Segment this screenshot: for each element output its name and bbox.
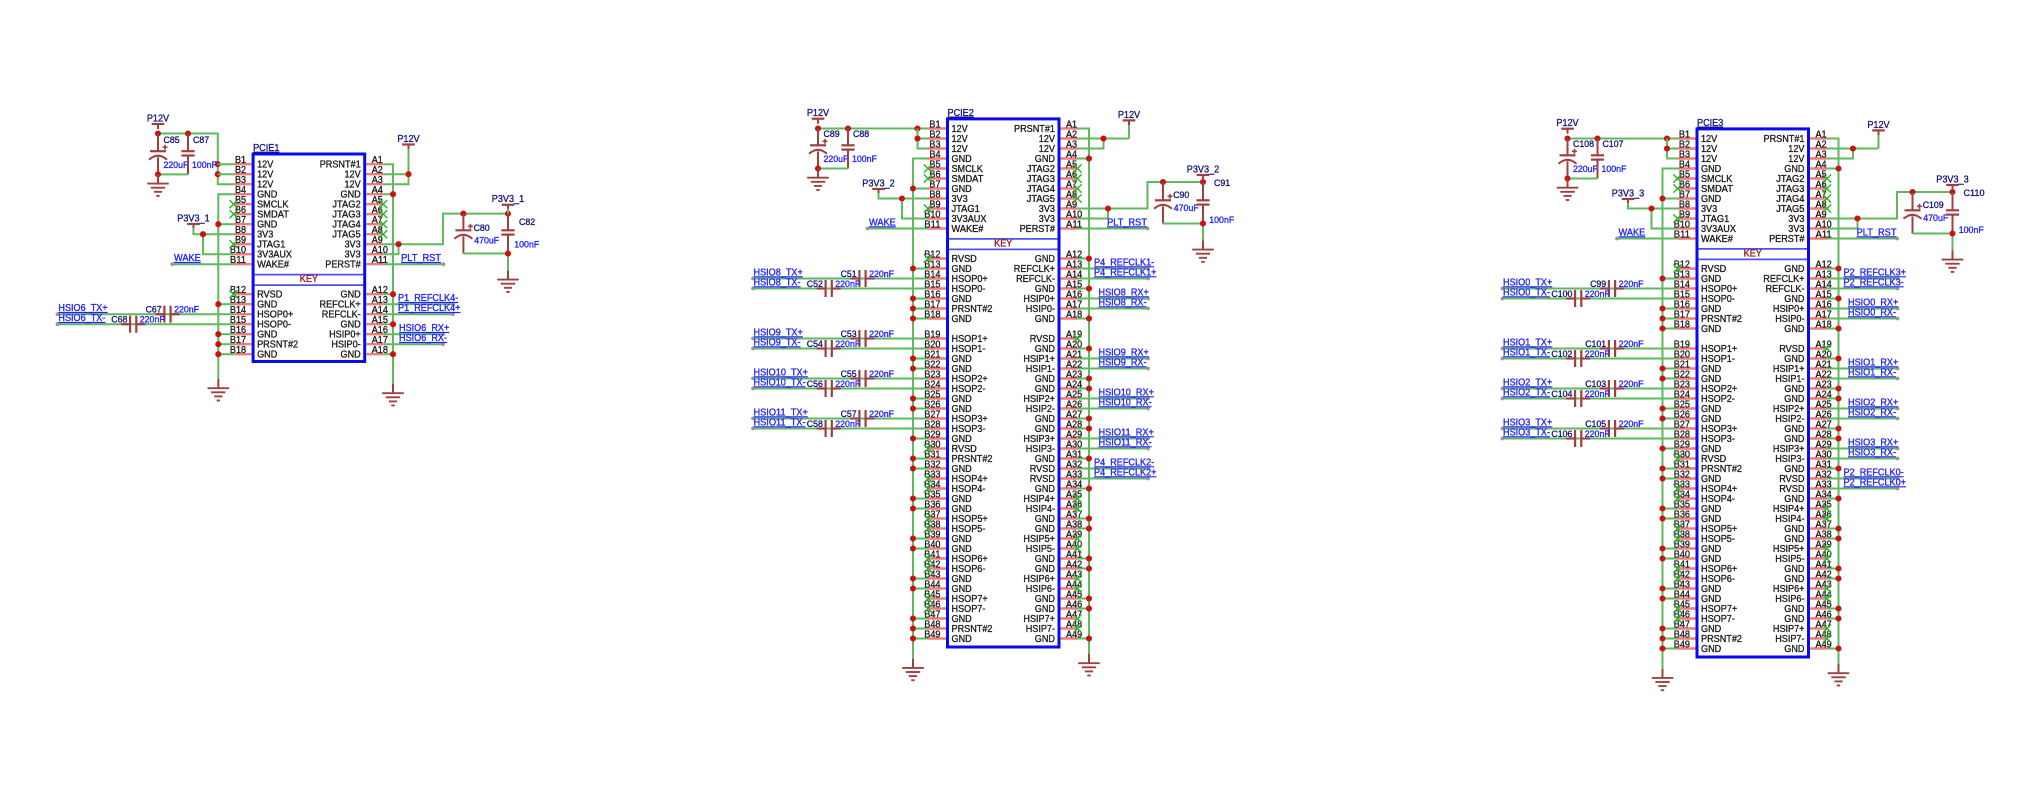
wire GND bus right: [383, 164, 396, 384]
net label WAKE: [869, 218, 896, 229]
pin B10 (3V3AUX) of PCIE3: [1674, 219, 1736, 235]
pin A34 (GND) of PCIE3: [1784, 489, 1832, 505]
pin A15 (GND) of PCIE2: [1035, 279, 1083, 295]
no-connect X: [924, 514, 932, 522]
wire HSIO3_TX-: [1501, 437, 1678, 441]
net label HSIO6_RX+: [399, 323, 449, 334]
net label HSIO10_RX-: [1099, 398, 1152, 409]
net label HSIO9_RX-: [1099, 358, 1147, 369]
wire 3V3 A9/A10 to P3V3_2: [1078, 179, 1207, 219]
pin B14 (HSOP0+) of PCIE2: [924, 269, 987, 285]
no-connect X: [1673, 264, 1681, 272]
wire HSIO10_RX+: [1078, 397, 1150, 401]
pin A33 (RVSD) of PCIE3: [1779, 479, 1832, 495]
net label HSIO0_TX+: [1503, 278, 1552, 289]
net label HSIO9_TX+: [754, 328, 803, 339]
pin A14 (REFCLK-) of PCIE3: [1766, 279, 1832, 295]
net label P2_REFCLK0-: [1844, 468, 1904, 479]
pin B10 (3V3AUX) of PCIE1: [230, 245, 292, 261]
pin A10 (3V3) of PCIE1: [345, 245, 389, 261]
pin B37 (HSOP5+) of PCIE2: [924, 509, 987, 525]
svg-text:C87: C87: [193, 134, 209, 145]
wire P4_REFCLK1-: [1078, 267, 1150, 271]
wire P12V to 12V bus: [155, 130, 234, 184]
pin B41 (HSOP6+) of PCIE3: [1674, 559, 1737, 575]
svg-text:P12V: P12V: [807, 108, 829, 119]
wire 12V bus to B2/B3: [914, 129, 928, 149]
svg-text:P3V3_1: P3V3_1: [492, 194, 525, 205]
capacitor C82 (100nF): [501, 214, 539, 254]
pin A25 (HSIP2+) of PCIE3: [1773, 399, 1832, 415]
no-connect X: [1673, 484, 1681, 492]
svg-text:C88: C88: [853, 128, 869, 139]
pin B9 (JTAG1) of PCIE3: [1678, 209, 1730, 225]
no-connect X: [924, 174, 932, 182]
no-connect X: [924, 484, 932, 492]
pin B5 (SMCLK) of PCIE3: [1678, 169, 1733, 185]
pin A4 (GND) of PCIE1: [341, 185, 384, 201]
net label P2_REFCLK0+: [1844, 478, 1907, 489]
wire C80-C82 bottom to ground: [463, 250, 511, 270]
wire P12V to A2/A3: [383, 149, 411, 184]
net label PLT_RST: [1107, 218, 1148, 229]
capacitor C87 (100nF): [181, 134, 217, 175]
pin B13 (GND) of PCIE1: [230, 295, 277, 311]
wire HSIO8_RX-: [1078, 307, 1150, 311]
pin A46 (GND) of PCIE2: [1035, 599, 1083, 615]
pin A48 (HSIP7-) of PCIE3: [1775, 629, 1832, 645]
pin B3 (12V) of PCIE2: [928, 139, 968, 155]
pin A27 (GND) of PCIE2: [1035, 409, 1083, 425]
svg-text:P3V3_3: P3V3_3: [1612, 188, 1645, 199]
net label HSIO2_RX-: [1848, 408, 1896, 419]
no-connect X: [1823, 514, 1831, 522]
capacitor C102 (220nF): [1551, 348, 1610, 367]
svg-text:GND: GND: [1701, 644, 1721, 655]
wire cap bottom: [1564, 175, 1597, 181]
designator PCIE3: [1697, 118, 1723, 129]
pin A1 (PRSNT#1) of PCIE3: [1764, 129, 1828, 145]
pin A16 (HSIP0+) of PCIE1: [329, 325, 388, 341]
wire WAKE: [866, 227, 928, 231]
svg-text:PERST#: PERST#: [1020, 224, 1056, 235]
pin A12 (GND) of PCIE3: [1784, 259, 1832, 275]
no-connect X: [1823, 544, 1831, 552]
pin A31 (GND) of PCIE2: [1035, 449, 1083, 465]
no-connect X: [1673, 494, 1681, 502]
wire cap bottom: [815, 165, 848, 171]
wire 12V bus to pin B2: [218, 173, 234, 175]
pin B17 (PRSNT#2) of PCIE2: [924, 299, 992, 315]
pin A37 (GND) of PCIE3: [1784, 519, 1832, 535]
wire HSIO9_RX+: [1078, 357, 1150, 361]
pin B49 (GND) of PCIE2: [924, 629, 971, 645]
no-connect X: [1073, 184, 1081, 192]
svg-text:GND: GND: [1784, 644, 1804, 655]
wire 12V bus to pin B1: [218, 163, 234, 165]
pin B9 (JTAG1) of PCIE2: [928, 199, 980, 215]
svg-text:GND: GND: [257, 350, 277, 361]
svg-text:C107: C107: [1603, 138, 1624, 149]
pin B15 (HSOP0-) of PCIE2: [924, 279, 985, 295]
pin A12 (GND) of PCIE2: [1035, 249, 1083, 265]
pin B48 (PRSNT#2) of PCIE2: [924, 619, 992, 635]
pin A14 (REFCLK-) of PCIE2: [1016, 269, 1082, 285]
pin B42 (HSOP6-) of PCIE2: [924, 559, 985, 575]
pin B38 (HSOP5-) of PCIE3: [1674, 529, 1735, 545]
wire HSIO6_TX+: [56, 312, 234, 316]
pin A10 (3V3) of PCIE2: [1039, 209, 1083, 225]
svg-text:220nF: 220nF: [1585, 348, 1610, 359]
pin B11 (WAKE#) of PCIE1: [230, 255, 289, 271]
capacitor C90 (470uF): [1154, 182, 1199, 224]
pin A25 (HSIP2+) of PCIE2: [1023, 389, 1082, 405]
pin B7 (GND) of PCIE3: [1678, 189, 1722, 205]
wire P2_REFCLK3-: [1827, 287, 1899, 291]
pin A6 (JTAG3) of PCIE1: [332, 205, 383, 221]
pin B1 (12V) of PCIE3: [1678, 129, 1718, 145]
pin B6 (SMDAT) of PCIE2: [928, 169, 984, 185]
pin B3 (12V) of PCIE1: [234, 175, 274, 191]
pin B12 (RVSD) of PCIE3: [1674, 259, 1727, 275]
svg-text:C80: C80: [474, 222, 490, 233]
capacitor C53 (220nF): [841, 328, 895, 347]
net label P2_REFCLK3-: [1844, 278, 1904, 289]
net label HSIO10_RX+: [1099, 388, 1154, 399]
wire P4_REFCLK2+: [1078, 477, 1150, 481]
net label HSIO11_RX-: [1099, 438, 1152, 449]
no-connect X: [1073, 534, 1081, 542]
pin A40 (HSIP5-) of PCIE3: [1775, 549, 1832, 565]
svg-text:P3V3_3: P3V3_3: [1936, 174, 1969, 185]
capacitor C80 (470uF): [454, 214, 499, 254]
pin A5 (JTAG2) of PCIE1: [332, 195, 383, 211]
no-connect X: [1073, 584, 1081, 592]
pin A49 (GND) of PCIE2: [1035, 629, 1083, 645]
pin A29 (HSIP3+) of PCIE3: [1773, 439, 1832, 455]
svg-text:220nF: 220nF: [1619, 278, 1644, 289]
no-connect X: [1823, 624, 1831, 632]
net label P4_REFCLK2+: [1094, 468, 1157, 479]
power symbol P12V: [807, 108, 829, 124]
pin B29 (GND) of PCIE3: [1674, 439, 1721, 455]
svg-text:220nF: 220nF: [1619, 418, 1644, 429]
capacitor C52 (220nF): [807, 278, 861, 297]
capacitor C55 (220nF): [841, 368, 895, 387]
svg-text:C100: C100: [1551, 288, 1572, 299]
pin B18 (GND) of PCIE1: [230, 345, 277, 361]
pin B22 (GND) of PCIE2: [924, 359, 971, 375]
no-connect X: [1673, 564, 1681, 572]
pin A39 (HSIP5+) of PCIE3: [1773, 539, 1832, 555]
pin B15 (HSOP0-) of PCIE1: [230, 315, 291, 331]
svg-text:P12V: P12V: [147, 113, 169, 124]
wire WAKE: [171, 262, 234, 266]
no-connect X: [1673, 614, 1681, 622]
pin B27 (HSOP3+) of PCIE2: [924, 409, 987, 425]
pin B36 (GND) of PCIE2: [924, 499, 971, 515]
pin B35 (GND) of PCIE3: [1674, 499, 1721, 515]
pin A43 (HSIP6+) of PCIE3: [1773, 579, 1832, 595]
pin A31 (GND) of PCIE3: [1784, 459, 1832, 475]
pin A8 (JTAG5) of PCIE3: [1776, 199, 1827, 215]
pin B47 (GND) of PCIE3: [1674, 619, 1721, 635]
wire HSIO2_RX-: [1827, 417, 1899, 421]
pin A29 (HSIP3+) of PCIE2: [1023, 429, 1082, 445]
pin B26 (GND) of PCIE2: [924, 399, 971, 415]
pin A7 (JTAG4) of PCIE3: [1776, 189, 1827, 205]
wire HSIO8_TX+: [751, 277, 928, 281]
wire HSIO9_TX-: [751, 347, 928, 351]
svg-text:220nF: 220nF: [835, 378, 860, 389]
no-connect X: [1073, 194, 1081, 202]
net label HSIO9_RX+: [1099, 348, 1149, 359]
power symbol P3V3_3: [1936, 174, 1969, 189]
pin B7 (GND) of PCIE1: [234, 215, 278, 231]
pin A2 (12V) of PCIE3: [1788, 139, 1827, 155]
pin A43 (HSIP6+) of PCIE2: [1023, 569, 1082, 585]
no-connect X: [1673, 454, 1681, 462]
wire HSIO0_RX+: [1827, 307, 1899, 311]
net label P1_REFCLK4-: [398, 293, 458, 304]
pin A13 (REFCLK+) of PCIE2: [1014, 259, 1083, 275]
wire 3V3 A9/A10 to P3V3_1: [383, 211, 511, 255]
net label PLT_RST: [1857, 228, 1898, 239]
pin A38 (GND) of PCIE3: [1784, 529, 1832, 545]
no-connect X: [1673, 174, 1681, 182]
svg-text:100nF: 100nF: [1602, 163, 1627, 174]
net label P4_REFCLK1-: [1094, 258, 1154, 269]
svg-text:220nF: 220nF: [1585, 388, 1610, 399]
wire P12V to B1: [1564, 135, 1677, 141]
pin B44 (GND) of PCIE3: [1674, 589, 1721, 605]
pin A21 (HSIP1+) of PCIE3: [1773, 359, 1832, 375]
ground at C108: [1557, 179, 1579, 201]
pin A19 (RVSD) of PCIE3: [1779, 339, 1832, 355]
no-connect X: [379, 200, 387, 208]
no-connect X: [1073, 624, 1081, 632]
net label HSIO8_RX+: [1099, 288, 1149, 299]
pin B31 (PRSNT#2) of PCIE3: [1674, 459, 1742, 475]
capacitor C58 (220nF): [807, 418, 861, 437]
pin B46 (HSOP7-) of PCIE3: [1674, 609, 1735, 625]
pin B41 (HSOP6+) of PCIE2: [924, 549, 987, 565]
pin B7 (GND) of PCIE2: [928, 179, 972, 195]
pin A38 (GND) of PCIE2: [1035, 519, 1083, 535]
net label HSIO1_RX-: [1848, 368, 1896, 379]
no-connect X: [1823, 194, 1831, 202]
svg-text:WAKE#: WAKE#: [257, 260, 289, 271]
wire HSIO0_TX+: [1501, 287, 1678, 291]
pin A11 (PERST#) of PCIE3: [1769, 229, 1832, 245]
svg-text:PERST#: PERST#: [1769, 234, 1805, 245]
svg-text:GND: GND: [1701, 324, 1721, 335]
svg-text:470uF: 470uF: [1923, 212, 1948, 223]
pin A16 (HSIP0+) of PCIE3: [1773, 299, 1832, 315]
no-connect X: [1073, 504, 1081, 512]
wire HSIO2_RX+: [1827, 407, 1899, 411]
pin A3 (12V) of PCIE2: [1039, 139, 1078, 155]
wire P2_REFCLK0+: [1827, 487, 1899, 491]
svg-text:GND: GND: [1035, 314, 1055, 325]
pin B2 (12V) of PCIE3: [1678, 139, 1718, 155]
power symbol P12V: [1867, 120, 1889, 136]
capacitor C89 (220uF): [809, 128, 849, 168]
capacitor C103 (220nF): [1585, 378, 1644, 397]
net label HSIO3_RX+: [1848, 438, 1898, 449]
no-connect X: [1823, 634, 1831, 642]
pin A24 (GND) of PCIE2: [1035, 379, 1083, 395]
net label HSIO11_TX+: [754, 408, 808, 419]
wire HSIO6_TX-: [56, 322, 234, 326]
svg-text:100nF: 100nF: [852, 153, 877, 164]
no-connect X: [924, 444, 932, 452]
pin A22 (HSIP1-) of PCIE3: [1775, 369, 1832, 385]
pin A23 (GND) of PCIE3: [1784, 379, 1832, 395]
svg-text:KEY: KEY: [1744, 248, 1762, 259]
pin B14 (HSOP0+) of PCIE3: [1674, 279, 1737, 295]
pin A34 (GND) of PCIE2: [1035, 479, 1083, 495]
pin A46 (GND) of PCIE3: [1784, 609, 1832, 625]
ground at C91: [1192, 240, 1214, 262]
svg-text:GND: GND: [1035, 634, 1055, 645]
svg-text:KEY: KEY: [994, 238, 1012, 249]
pin A9 (3V3) of PCIE2: [1039, 199, 1078, 215]
no-connect X: [1073, 334, 1081, 342]
no-connect X: [379, 230, 387, 238]
svg-text:C56: C56: [807, 378, 823, 389]
pin B17 (PRSNT#2) of PCIE3: [1674, 309, 1742, 325]
pin A18 (GND) of PCIE2: [1035, 309, 1083, 325]
wire P2_REFCLK0-: [1827, 477, 1899, 481]
svg-text:220nF: 220nF: [835, 278, 860, 289]
wire HSIO0_RX-: [1827, 317, 1899, 321]
pin A3 (12V) of PCIE1: [345, 175, 384, 191]
no-connect X: [1673, 604, 1681, 612]
pin B19 (HSOP1+) of PCIE2: [924, 329, 987, 345]
pin A35 (HSIP4+) of PCIE3: [1773, 499, 1832, 515]
no-connect X: [924, 204, 932, 212]
pin A19 (RVSD) of PCIE2: [1030, 329, 1083, 345]
svg-text:100nF: 100nF: [192, 159, 217, 170]
pin B30 (RVSD) of PCIE2: [924, 439, 977, 455]
capacitor C91 (100nF): [1196, 177, 1234, 225]
capacitor C56 (220nF): [807, 378, 861, 397]
svg-text:GND: GND: [341, 350, 361, 361]
pin A45 (GND) of PCIE2: [1035, 589, 1083, 605]
pin B4 (GND) of PCIE2: [928, 149, 972, 165]
svg-text:C106: C106: [1551, 428, 1572, 439]
pin A4 (GND) of PCIE3: [1784, 159, 1827, 175]
svg-text:100nF: 100nF: [1209, 214, 1234, 225]
capacitor C107 (100nF): [1591, 138, 1627, 178]
wire P12V to A2/A3: [1827, 135, 1879, 159]
pin A11 (PERST#) of PCIE1: [325, 255, 388, 271]
no-connect X: [1823, 554, 1831, 562]
pin B18 (GND) of PCIE2: [924, 309, 971, 325]
svg-text:220nF: 220nF: [869, 328, 894, 339]
svg-text:PERST#: PERST#: [325, 260, 361, 271]
net label PLT_RST: [401, 253, 442, 264]
no-connect X: [379, 210, 387, 218]
wire GND bus right: [1078, 129, 1093, 655]
pin A10 (3V3) of PCIE3: [1788, 219, 1832, 235]
net label HSIO10_TX+: [754, 368, 808, 379]
svg-text:C82: C82: [519, 216, 535, 227]
power symbol P12V: [1118, 110, 1140, 126]
pin A3 (12V) of PCIE3: [1788, 149, 1827, 165]
wire HSIO2_TX+: [1501, 387, 1678, 391]
svg-text:GND: GND: [1784, 324, 1804, 335]
net label HSIO1_TX+: [1503, 338, 1552, 349]
pin B26 (GND) of PCIE3: [1674, 409, 1721, 425]
pin A37 (GND) of PCIE2: [1035, 509, 1083, 525]
svg-text:KEY: KEY: [300, 274, 318, 285]
pin B39 (GND) of PCIE3: [1674, 539, 1721, 555]
no-connect X: [1673, 524, 1681, 532]
pin B32 (GND) of PCIE3: [1674, 469, 1721, 485]
svg-text:220nF: 220nF: [869, 268, 894, 279]
pin B8 (3V3) of PCIE3: [1678, 199, 1718, 215]
net label HSIO6_TX-: [58, 313, 105, 324]
capacitor C101 (220nF): [1585, 338, 1644, 357]
svg-text:P3V3_2: P3V3_2: [1187, 164, 1220, 175]
pin A24 (GND) of PCIE3: [1784, 389, 1832, 405]
wire P12V to B1: [815, 125, 928, 131]
pin A44 (HSIP6-) of PCIE3: [1775, 589, 1832, 605]
no-connect X: [924, 164, 932, 172]
ground at C110: [1942, 250, 1964, 272]
svg-text:C104: C104: [1551, 388, 1572, 399]
power symbol P3V3_2: [1187, 164, 1220, 179]
wire cap bottom to ground: [1163, 220, 1206, 240]
no-connect X: [924, 474, 932, 482]
pin A15 (GND) of PCIE1: [341, 315, 389, 331]
pin B25 (GND) of PCIE3: [1674, 399, 1721, 415]
no-connect X: [1823, 184, 1831, 192]
pin B22 (GND) of PCIE3: [1674, 369, 1721, 385]
net label HSIO1_RX+: [1848, 358, 1898, 369]
no-connect X: [924, 254, 932, 262]
pin A33 (RVSD) of PCIE2: [1030, 469, 1083, 485]
ground right of PCIE1: [382, 384, 404, 406]
pin A1 (PRSNT#1) of PCIE1: [320, 155, 384, 171]
svg-text:220uF: 220uF: [1573, 163, 1598, 174]
pin A13 (REFCLK+) of PCIE3: [1763, 269, 1832, 285]
pin B43 (GND) of PCIE3: [1674, 579, 1721, 595]
pin B43 (GND) of PCIE2: [924, 569, 971, 585]
pin A5 (JTAG2) of PCIE2: [1027, 159, 1078, 175]
svg-text:100nF: 100nF: [514, 239, 539, 250]
pin A18 (GND) of PCIE1: [341, 345, 389, 361]
pin B8 (3V3) of PCIE2: [928, 189, 968, 205]
pin A17 (HSIP0-) of PCIE3: [1775, 309, 1832, 325]
pin A36 (HSIP4-) of PCIE3: [1775, 509, 1832, 525]
wire HSIO1_TX+: [1501, 347, 1678, 351]
capacitor C85 (220uF): [149, 134, 189, 175]
wire P1_REFCLK4-: [383, 302, 455, 306]
no-connect X: [1673, 574, 1681, 582]
pin A30 (HSIP3-) of PCIE2: [1026, 439, 1083, 455]
pin A28 (GND) of PCIE3: [1784, 429, 1832, 445]
svg-text:C102: C102: [1551, 348, 1572, 359]
wire P2_REFCLK3+: [1827, 277, 1899, 281]
pin B14 (HSOP0+) of PCIE1: [230, 305, 293, 321]
pin B3 (12V) of PCIE3: [1678, 149, 1718, 165]
pin B20 (HSOP1-) of PCIE3: [1674, 349, 1735, 365]
pin A26 (HSIP2-) of PCIE3: [1775, 409, 1832, 425]
pin B21 (GND) of PCIE2: [924, 349, 971, 365]
